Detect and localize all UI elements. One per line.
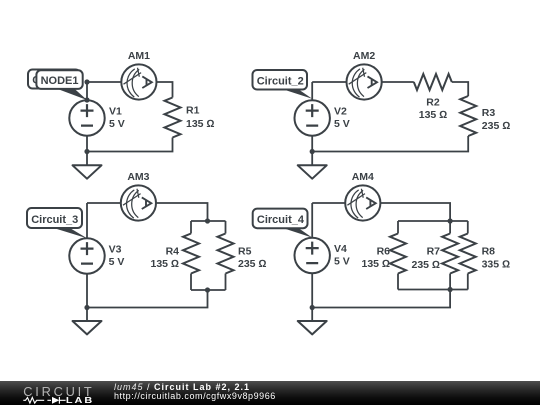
svg-text:R5: R5 [238,245,252,257]
resistor R2 [414,74,452,90]
ground GND1 [73,165,102,178]
wire V1 top feed [86,82,88,100]
wire R1 to bottom rail [87,138,173,152]
svg-text:235 Ω: 235 Ω [411,259,440,271]
voltage source V4 [295,238,330,273]
wire V4 bottom to ground [311,273,313,321]
svg-text:5 V: 5 V [334,256,350,268]
svg-text:V2: V2 [334,106,347,118]
svg-text:R6: R6 [377,245,391,257]
svg-text:LAB: LAB [66,396,94,405]
node flag Circuit_1 (behind) [28,70,80,89]
svg-text:R4: R4 [166,245,180,257]
svg-text:AM3: AM3 [127,171,149,183]
wire AM3 to parallel top [156,203,208,221]
wire to AM4 [312,202,345,204]
wire parallel to bottom rail [87,290,208,308]
wire to AM2 [312,81,346,83]
svg-text:R2: R2 [426,97,440,109]
footer bar [0,381,540,405]
ammeter AM1 [121,64,156,99]
svg-text:235 Ω: 235 Ω [238,258,267,270]
resistor R5 [218,234,234,274]
node flag Circuit_4 [253,209,313,238]
ground GND3 [73,321,102,334]
ground GND2 [298,165,327,178]
svg-text:V3: V3 [109,244,122,256]
wire V4 top feed [311,203,313,238]
svg-text:R8: R8 [482,245,496,257]
resistor R3 [460,96,476,136]
svg-text:R1: R1 [186,105,200,117]
wire parallel top bar [191,220,226,222]
junction node top corner [84,79,89,84]
svg-text:AM4: AM4 [352,171,374,183]
wire R4 bottom lead [190,274,192,291]
wire V2 top feed [311,82,313,100]
wire V2 bottom to ground [311,136,313,166]
svg-text:135 Ω: 135 Ω [361,258,390,270]
svg-text:NODE1: NODE1 [41,75,79,87]
svg-text:AM2: AM2 [353,50,375,62]
wire AM4 to parallel top [380,203,450,221]
node flag NODE1 [36,70,87,100]
wire V3 bottom to ground [86,274,88,321]
wire node to AM1 [87,81,121,83]
junction parallel top [205,218,210,223]
resistor R1 [165,98,181,138]
junction parallel bottom c4 [448,287,453,292]
ammeter AM3 [121,185,156,220]
wire R3 to bottom rail [312,136,468,152]
junction parallel bottom [205,287,210,292]
resistor R7 [442,234,458,274]
wire R8 top lead [467,221,469,234]
node flag Circuit_3 [27,208,87,238]
svg-text:V1: V1 [109,106,122,118]
ammeter AM2 [347,64,382,99]
svg-text:V4: V4 [334,243,347,255]
svg-text:Circuit_2: Circuit_2 [257,76,304,88]
svg-text:R3: R3 [482,107,496,119]
ammeter AM4 [345,185,380,220]
svg-text:5 V: 5 V [109,256,125,268]
wire R5 top lead [225,221,227,234]
svg-text:135 Ω: 135 Ω [419,109,448,121]
svg-text:5 V: 5 V [109,118,125,130]
wire R4 top lead [190,221,192,234]
voltage source V3 [69,238,104,273]
wire to AM3 [87,202,121,204]
wire V3 top feed [86,203,88,238]
wire R8 bottom lead [467,274,469,290]
resistor R6 [390,234,406,274]
svg-text:Circuit_4: Circuit_4 [257,214,305,226]
svg-text:Circuit_3: Circuit_3 [31,214,78,226]
CircuitLab logo [16,381,116,405]
wire R2 to R3 [452,82,468,96]
svg-text:135 Ω: 135 Ω [186,118,215,130]
wire R7 top lead [449,221,451,234]
junction parallel top c4 [448,218,453,223]
svg-text:AM1: AM1 [128,50,150,62]
svg-text:R7: R7 [427,245,441,257]
wire AM1 to R1 [156,82,172,98]
svg-text:235 Ω: 235 Ω [482,120,511,132]
node flag Circuit_2 [253,70,313,99]
svg-text:335 Ω: 335 Ω [482,259,511,271]
wire R6 bottom lead [397,274,399,290]
junction bottom rail c2 [310,149,315,154]
wire R7 bottom lead [449,274,451,290]
junction V1 top [84,97,89,102]
wire parallel bottom bar [191,289,226,291]
wire parallel top bar c4 [398,220,468,222]
resistor R8 [460,234,476,274]
wire R6 top lead [397,221,399,234]
svg-text:5 V: 5 V [334,118,350,130]
junction bottom rail c4 [310,305,315,310]
wire parallel bottom bar c4 [398,289,468,291]
wire R5 bottom lead [225,274,227,291]
ground GND4 [298,321,327,334]
wire parallel to bottom rail c4 [312,290,450,308]
junction bottom rail c3 [84,305,89,310]
wire AM2 to R2 [382,81,414,83]
resistor R4 [183,234,199,274]
logo waveform + diode [23,397,65,404]
junction bottom rail [84,149,89,154]
wire V1 bottom to ground [86,136,88,166]
svg-text:135 Ω: 135 Ω [150,258,179,270]
voltage source V1 [69,100,104,135]
voltage source V2 [295,100,330,135]
